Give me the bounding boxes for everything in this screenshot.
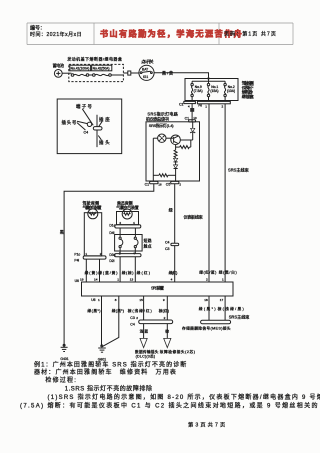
svg-text:绿: 绿 — [169, 206, 173, 212]
battery B+ symbol — [54, 70, 62, 78]
wire lamp left rail — [153, 137, 157, 139]
svg-text:17: 17 — [220, 298, 224, 302]
wire battery to under-hood fuse box — [62, 72, 71, 74]
wire connector to ignition switch — [131, 72, 139, 74]
svg-text:插头号: 插头号 — [62, 119, 77, 126]
fuse No.41 label box — [70, 65, 91, 71]
arrow to data link connector — [140, 338, 147, 347]
black connector block on wire — [190, 108, 194, 112]
svg-text:绿(红): 绿(红) — [137, 270, 150, 275]
shorting contacts box — [115, 235, 143, 252]
svg-text:C4: C4 — [84, 131, 89, 135]
legend callout line from plug — [98, 136, 101, 140]
wire SRS pin17 to MES — [224, 296, 226, 320]
driver airbag inflator box — [84, 213, 101, 256]
passenger airbag connector bar — [115, 225, 141, 228]
wire fuse4 down to SRS indicator — [191, 104, 193, 122]
diode D2 — [174, 165, 178, 169]
svg-text:（在仪表总成中）: （在仪表总成中） — [143, 115, 172, 121]
svg-text:绿(蓝/黄): 绿(蓝/黄) — [98, 270, 117, 275]
resistor R4 (bottom) — [153, 174, 175, 177]
fuse No.1 — [207, 81, 218, 101]
driver airbag squib — [88, 209, 98, 219]
svg-text:C5: C5 — [166, 182, 171, 186]
fuse No.41 — [71, 74, 89, 77]
svg-text:G801: G801 — [98, 357, 106, 361]
svg-text:仪表板线束: 仪表板线束 — [184, 213, 203, 219]
svg-text:绿(黄): 绿(黄) — [85, 270, 98, 275]
legend box — [57, 99, 122, 154]
svg-text:C3: C3 — [130, 316, 135, 320]
svg-text:C1: C1 — [179, 103, 184, 107]
svg-text:2: 2 — [164, 316, 166, 320]
legend example terminal circle — [87, 122, 91, 126]
svg-text:2: 2 — [179, 183, 181, 187]
svg-text:(1)SRS 指示灯电路的示意图，如图 8-20 所示，仪表: (1)SRS 指示灯电路的示意图，如图 8-20 所示，仪表板下熔断器/继电器盒… — [48, 393, 320, 401]
svg-text:绿(黑¹): 绿(黑¹) — [87, 308, 100, 313]
left rail of lamp box — [152, 138, 154, 181]
dash fuse/relay box — [185, 79, 238, 101]
wires into shorting box — [119, 228, 121, 237]
svg-text:绿(黑¹): 绿(黑¹) — [112, 308, 124, 313]
svg-text:8: 8 — [115, 298, 117, 302]
dash fuse box bus — [208, 79, 210, 82]
svg-text:1.SRS 指示灯不亮的故障排除: 1.SRS 指示灯不亮的故障排除 — [65, 384, 153, 392]
svg-text:U6: U6 — [91, 298, 95, 302]
svg-text:4: 4 — [171, 278, 173, 282]
svg-text:1: 1 — [98, 298, 100, 302]
passenger airbag squib — [122, 209, 132, 219]
zener diode in lamp circuit — [190, 122, 195, 133]
shorting contact left — [119, 237, 123, 254]
wire ignition to dash fuse box, black/yellow — [154, 73, 208, 79]
svg-text:继电器盒: 继电器盒 — [242, 94, 254, 99]
wire lamp to transistor base — [166, 137, 173, 139]
arrow to service check connector — [164, 338, 171, 347]
svg-text:18: 18 — [204, 298, 208, 302]
fuse No.2 — [224, 81, 235, 101]
inline connector — [128, 71, 131, 75]
legend callout lines from connector-number — [77, 121, 87, 123]
svg-text:绿(黑¹): 绿(黑¹) — [199, 306, 216, 311]
svg-text:19: 19 — [80, 278, 84, 282]
svg-text:存储器删除信号(MES)接头: 存储器删除信号(MES)接头 — [182, 325, 231, 330]
indicator lamp L1 — [158, 134, 166, 142]
ignition switch SW1 — [139, 65, 154, 80]
connector bar C1 under fuse box — [184, 101, 196, 103]
svg-text:SRS主线束: SRS主线束 — [229, 314, 250, 320]
wire SRS pin18 to MES — [208, 296, 210, 320]
DLC connector C3/C4 bar — [130, 316, 172, 327]
svg-text:绿(棕): 绿(棕) — [122, 270, 134, 275]
MES connector bar — [201, 320, 231, 324]
svg-text:棕(浅绿/红): 棕(浅绿/红) — [128, 308, 152, 313]
svg-text:No.42(50A): No.42(50A) — [93, 67, 110, 71]
svg-text:U6: U6 — [75, 279, 79, 283]
svg-text:BAT: BAT — [142, 68, 148, 72]
svg-text:时间：2021年x月x日: 时间：2021年x月x日 — [30, 31, 82, 38]
svg-text:G401: G401 — [60, 357, 68, 361]
svg-text:2: 2 — [206, 278, 208, 282]
svg-text:棕(红): 棕(红) — [159, 308, 169, 313]
passenger lower connector bar — [114, 254, 141, 257]
resistor R2 (transistor bypass) — [176, 140, 191, 149]
svg-text:C4: C4 — [165, 241, 170, 245]
ground G801 — [98, 345, 106, 362]
svg-text:F6: F6 — [198, 104, 202, 108]
svg-text:2: 2 — [136, 316, 138, 320]
svg-text:SRS指示灯(1.4): SRS指示灯(1.4) — [149, 123, 174, 128]
shorting contact right — [134, 237, 138, 254]
svg-text:书山有路勤为径，学海无涯苦作舟: 书山有路勤为径，学海无涯苦作舟 — [100, 29, 243, 39]
svg-text:器材：广州本田雅阁轿车 维修资料 万用表: 器材：广州本田雅阁轿车 维修资料 万用表 — [34, 368, 177, 376]
svg-text:插头: 插头 — [99, 139, 110, 146]
legend wire with connector symbol — [96, 115, 98, 127]
svg-text:P1o: P1o — [74, 252, 80, 256]
collector wire to rail — [180, 139, 192, 141]
svg-text:C1: C1 — [145, 182, 150, 186]
ground G401 — [60, 344, 68, 361]
svg-text:短路: 短路 — [144, 238, 152, 243]
svg-text:P4i: P4i — [74, 259, 79, 263]
wire lamp ground run to G401 — [64, 184, 154, 347]
fuse No.42 — [93, 74, 112, 77]
svg-text:页码：第1页 共7页: 页码：第1页 共7页 — [224, 31, 277, 38]
svg-text:IG1: IG1 — [143, 75, 148, 79]
wires passenger airbag to SRS — [119, 257, 121, 282]
svg-text:棕: 棕 — [165, 328, 169, 333]
svg-text:端子号: 端子号 — [76, 103, 92, 110]
svg-text:棕(浅绿/黑): 棕(浅绿/黑) — [218, 306, 244, 311]
svg-text:触点: 触点 — [144, 244, 152, 249]
svg-text:(7.5A) 熔断：有可能是仪表板中 C1 与 C2 插头之: (7.5A) 熔断：有可能是仪表板中 C1 与 C2 插头之间线束对地短路，或是… — [20, 402, 319, 410]
svg-text:插座: 插座 — [99, 116, 110, 123]
svg-text:C3: C3 — [165, 247, 170, 251]
svg-text:编号：: 编号： — [30, 25, 45, 32]
wire DLC right leg — [166, 324, 168, 339]
svg-text:14: 14 — [94, 278, 98, 282]
svg-text:No.41(100A): No.41(100A) — [71, 67, 90, 71]
wire SRS pin9 to DLC — [166, 296, 168, 320]
svg-text:黑: 黑 — [60, 230, 64, 235]
right rail from zener to collector node — [192, 133, 194, 140]
SRS unit U6 — [82, 282, 234, 296]
emitter wire down — [175, 145, 177, 150]
svg-text:15: 15 — [139, 298, 143, 302]
svg-text:(7.5A): (7.5A) — [194, 89, 203, 93]
wire between fuses — [89, 74, 93, 76]
svg-text:发动机盖下熔断器/继电器盒: 发动机盖下熔断器/继电器盒 — [67, 56, 122, 62]
svg-text:黑/黄: 黑/黄 — [162, 70, 173, 76]
svg-text:SRS装置: SRS装置 — [151, 285, 164, 291]
driver airbag connector bar — [83, 256, 106, 259]
svg-text:浅蓝: 浅蓝 — [140, 328, 149, 333]
svg-text:数据传输插头: 数据传输插头 — [135, 349, 159, 354]
svg-text:1: 1 — [117, 278, 119, 282]
svg-text:检修过程:: 检修过程: — [45, 376, 77, 384]
transistor Q1 — [171, 135, 181, 145]
wire DLC left leg — [143, 324, 145, 339]
svg-text:C4: C4 — [130, 323, 135, 327]
long wire fuse2 to SRS unit — [224, 104, 226, 282]
junction dot at fuse box feed — [207, 77, 209, 79]
svg-text:SRS主线束: SRS主线束 — [228, 167, 249, 173]
svg-text:1: 1 — [205, 104, 207, 108]
legend callout line from socket — [99, 122, 102, 127]
svg-text:4: 4 — [188, 104, 190, 108]
under-hood fuse/relay box (dashed) — [69, 64, 124, 81]
svg-text:例1：广州本田雅阁轿车 SRS 指示灯不亮的诊断: 例1：广州本田雅阁轿车 SRS 指示灯不亮的诊断 — [34, 360, 187, 368]
svg-text:16: 16 — [158, 183, 162, 187]
svg-text:1: 1 — [222, 278, 224, 282]
connector bar F6 under fuse box — [197, 101, 230, 103]
svg-text:(DLC)(3芯): (DLC)(3芯) — [136, 353, 156, 358]
fuse No.9 — [191, 81, 203, 101]
resistor R3 (vertical) — [174, 150, 177, 158]
svg-text:9: 9 — [163, 298, 165, 302]
wire SRS pin15 to DLC — [143, 296, 145, 320]
svg-text:(10A): (10A) — [227, 89, 235, 93]
svg-text:点火开关: 点火开关 — [141, 58, 153, 64]
svg-text:绿(红): 绿(红) — [169, 270, 178, 275]
wire SRS pin1 to G801 — [101, 296, 103, 346]
header table border — [27, 23, 293, 45]
svg-text:(15A): (15A) — [210, 89, 218, 93]
diode D1 — [174, 158, 178, 162]
svg-text:13: 13 — [130, 278, 134, 282]
svg-text:绿(红/蓝): 绿(红/蓝) — [199, 269, 216, 274]
long wire fuse1 to SRS unit — [208, 104, 210, 282]
wires driver airbag to SRS — [85, 259, 87, 282]
svg-text:蓄电池: 蓄电池 — [53, 62, 64, 68]
wire C5 down through C4/C3 to SRS unit — [174, 184, 176, 243]
fuse No.42 label box — [92, 65, 112, 71]
svg-text:D2i: D2i — [109, 259, 114, 263]
wire SRS pin8 to G801 — [102, 296, 119, 347]
svg-text:绿(黑/白): 绿(黑/白) — [219, 269, 237, 274]
legend callout line to terminal — [82, 109, 93, 126]
wire fuse box to connector — [111, 74, 123, 76]
svg-text:2: 2 — [222, 105, 224, 109]
svg-text:D4i: D4i — [109, 231, 114, 235]
passenger airbag inflator box — [117, 212, 139, 225]
connector C4/C3 on indicator wire — [165, 241, 179, 252]
svg-text:第 3 页 共 7 页: 第 3 页 共 7 页 — [188, 421, 226, 429]
svg-text:故障检修接头(2芯): 故障检修接头(2芯) — [160, 349, 195, 354]
gauge assembly box — [146, 122, 200, 181]
